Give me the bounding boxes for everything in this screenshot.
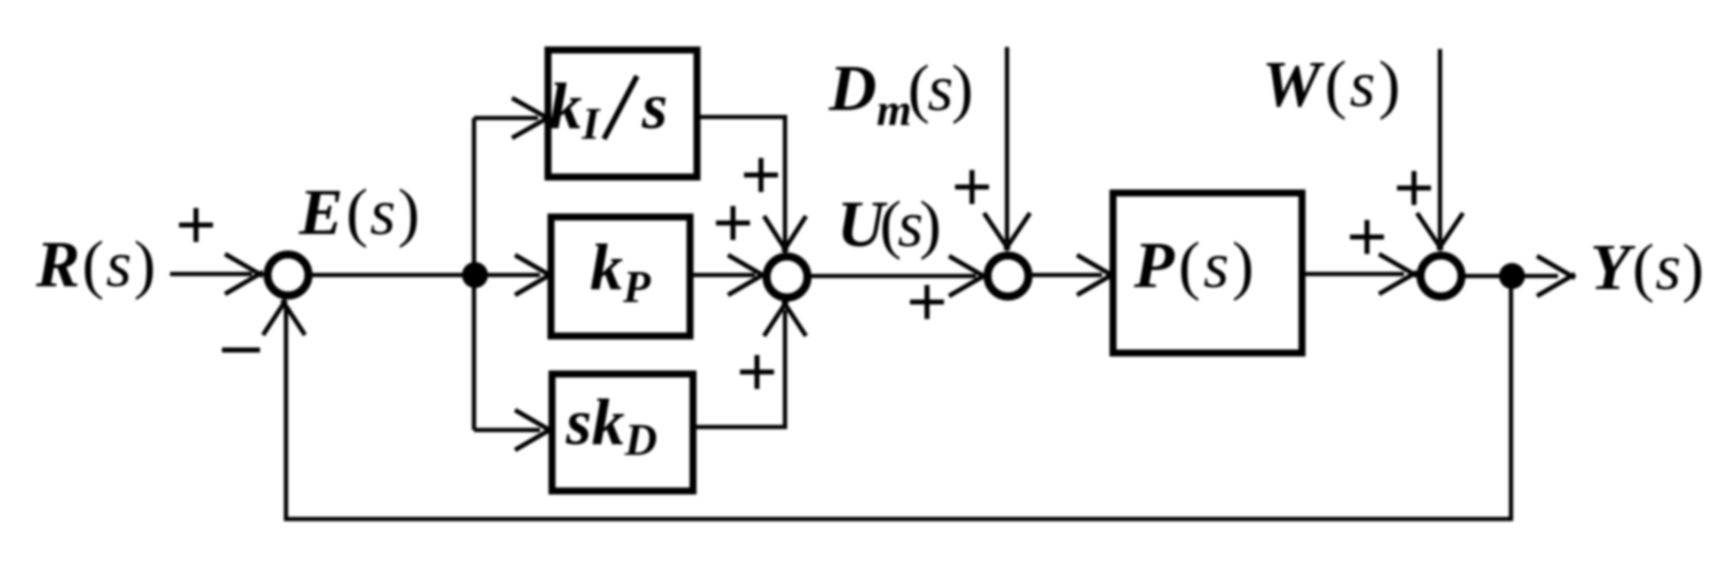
arrow into kP block xyxy=(515,255,553,295)
svg-text:U(s): U(s) xyxy=(837,188,941,261)
wire R(s) input xyxy=(170,272,252,276)
arrow skD into summing junction S2 xyxy=(764,301,806,336)
arrow into summing junction S4 xyxy=(1379,254,1417,294)
svg-text:s: s xyxy=(641,70,668,143)
wire node B to Y(s) xyxy=(1512,274,1558,278)
block P(s) xyxy=(1113,193,1302,353)
wire U(s) from S2 to S3 xyxy=(808,274,976,278)
arrow into kI block xyxy=(512,98,551,138)
svg-text:R(s): R(s) xyxy=(35,228,156,301)
wire kP output xyxy=(690,273,755,277)
plus sign P output into S4 xyxy=(1350,220,1384,254)
block kI/s xyxy=(548,50,697,177)
arrow kI into summing junction S2 xyxy=(764,216,806,252)
wire skD output elbow xyxy=(693,310,785,427)
arrow feedback into S1 xyxy=(263,300,305,335)
wire kI output elbow xyxy=(697,117,785,244)
wire branch to skD block xyxy=(474,428,540,432)
arrow kP into summing junction S2 xyxy=(728,255,766,295)
wire feedback path xyxy=(286,276,1511,519)
svg-text:Y(s): Y(s) xyxy=(1590,231,1704,304)
wire W(s) vertical input xyxy=(1438,49,1442,242)
wire Dm(s) vertical input xyxy=(1005,47,1009,242)
plus sign at R(s) input xyxy=(179,208,213,242)
plus sign kI input to S2 xyxy=(744,158,778,192)
plus sign Dm into S3 xyxy=(955,170,989,204)
wire branch to kI block xyxy=(474,116,538,120)
svg-text:P(s): P(s) xyxy=(1133,229,1254,302)
wire S4 to node B xyxy=(1462,274,1505,278)
plus sign W into S4 xyxy=(1397,171,1431,205)
summing junction S3 xyxy=(988,256,1029,297)
plus sign skD input to S2 xyxy=(740,355,774,389)
summing junction S4 xyxy=(1421,256,1462,297)
arrow into summing junction S3 xyxy=(949,256,987,296)
svg-text:W(s): W(s) xyxy=(1262,48,1400,121)
summing junction S1 xyxy=(268,255,309,296)
minus sign at feedback input xyxy=(222,348,260,353)
summing junction S2 xyxy=(767,257,808,298)
wire S3 to P block xyxy=(1029,273,1102,277)
wire node A to kP block xyxy=(474,273,540,277)
arrow W into S4 xyxy=(1417,213,1463,250)
plus sign kP input to S2 xyxy=(716,206,750,240)
node A dot xyxy=(462,262,488,288)
wire S1 to node A xyxy=(309,273,474,277)
wire P output to S4 xyxy=(1302,272,1404,276)
arrow into P block xyxy=(1077,255,1115,295)
arrow to Y(s) output xyxy=(1537,256,1575,296)
arrow Dm into S3 xyxy=(984,213,1030,250)
wire node A vertical branch xyxy=(472,118,476,430)
block skD xyxy=(552,374,693,491)
label kI/s slash xyxy=(604,76,637,139)
plus sign U(s) into S3 xyxy=(910,285,944,319)
arrow into summing junction S1 xyxy=(225,254,263,294)
node B dot xyxy=(1499,263,1525,289)
arrow into skD block xyxy=(515,410,553,450)
svg-text:E(s): E(s) xyxy=(298,176,420,249)
block kP xyxy=(551,217,690,336)
